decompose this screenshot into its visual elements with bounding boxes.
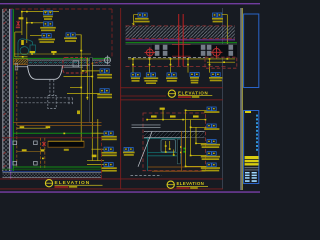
detail label text bbox=[64, 37, 77, 39]
callout C5 text bbox=[101, 167, 116, 169]
title3 circle line bbox=[167, 184, 175, 186]
low dim text bbox=[92, 155, 97, 158]
label R1 boxes bbox=[207, 107, 216, 111]
plan green dots bbox=[183, 148, 185, 150]
leader horizontal y87.5 bbox=[70, 87, 81, 89]
detail label boxes bbox=[66, 33, 75, 37]
label L2 boxes bbox=[44, 22, 53, 26]
counter dim line bbox=[14, 53, 91, 55]
label L2 inner marks bbox=[45, 23, 47, 25]
shelf red star bbox=[42, 141, 45, 146]
shelf dim text 2 bbox=[41, 149, 45, 151]
plan right dim vertical 2 bbox=[190, 120, 192, 156]
skirt dim dot bbox=[223, 61, 225, 63]
dim horizontal second bbox=[27, 22, 43, 24]
section circle stem bbox=[107, 55, 109, 64]
detail balloon white line bbox=[64, 66, 83, 69]
callout C4 inner marks bbox=[105, 148, 107, 150]
callout C4 text bbox=[101, 152, 116, 154]
label G3 text bbox=[166, 77, 177, 79]
faucet dim dot bbox=[22, 56, 24, 58]
detail label inner marks bbox=[67, 34, 69, 35]
label L3 text bbox=[39, 39, 56, 41]
dim line dots bbox=[132, 58, 228, 60]
floor green line 2 bbox=[3, 168, 102, 171]
plan counter back teal edge bbox=[144, 138, 182, 140]
counter dim dot 1 bbox=[31, 53, 33, 55]
label G1 boxes bbox=[131, 73, 140, 77]
title1 underline bbox=[55, 184, 103, 187]
stem dots bbox=[91, 76, 93, 78]
title2 underline bbox=[178, 94, 212, 97]
sheet edge grey line bbox=[240, 8, 241, 190]
slab hatch bottom red dashed edge bbox=[126, 37, 236, 39]
mirror bracket top-right bbox=[34, 141, 38, 145]
counter dim text 2 bbox=[51, 51, 56, 53]
plan right dim vertical 3 bbox=[195, 127, 197, 143]
title block small text rows bbox=[245, 172, 257, 182]
callout C1 inner marks bbox=[101, 70, 103, 72]
slab hatch band bbox=[126, 26, 236, 39]
drain pipe dashed bbox=[17, 98, 73, 105]
plan side panel dark band bbox=[177, 139, 180, 164]
label R5 inner marks bbox=[208, 164, 210, 165]
faucet dim vertical bbox=[14, 32, 16, 57]
plan left label text bbox=[123, 152, 135, 154]
callout C1 leader bbox=[83, 70, 100, 72]
mirror bracket top-left bbox=[13, 141, 17, 145]
red mid segments bbox=[172, 43, 191, 46]
label L3 leader bbox=[30, 35, 42, 37]
title block table lines bbox=[245, 166, 259, 169]
label G2 text bbox=[144, 77, 159, 79]
batten blocks row1 bbox=[155, 45, 233, 50]
wall strip red ticks bbox=[3, 10, 5, 167]
title block blue box lower bbox=[244, 111, 259, 184]
plan orange mid line bbox=[148, 166, 206, 168]
callout C4 leader bbox=[92, 148, 105, 150]
plan counter teal front edge 2 bbox=[148, 155, 182, 157]
skirting dim line bbox=[17, 127, 48, 129]
title1 scale text bbox=[55, 186, 69, 188]
plan dim text 3 bbox=[193, 115, 199, 117]
plan dim text 2 bbox=[170, 115, 176, 117]
legend blue box upper bbox=[244, 14, 259, 88]
mirror bracket bottom-left bbox=[13, 161, 17, 165]
batten blocks row2 bbox=[155, 51, 233, 56]
orange ceiling line bbox=[205, 45, 237, 48]
label G4 boxes bbox=[190, 73, 199, 77]
floor hatch bottom edge bbox=[3, 176, 102, 179]
orange vertical pair at shelf left bbox=[40, 138, 42, 168]
red divider horizontal title1 bottom bbox=[120, 98, 223, 101]
dim horizontal top bbox=[22, 11, 59, 13]
dim vertical x26.8 bbox=[26, 18, 28, 44]
title2 circle line bbox=[168, 93, 176, 95]
counter slab bottom edge bbox=[28, 64, 111, 67]
plan wall band top edge bbox=[144, 130, 205, 133]
red section symbol 1 bbox=[145, 47, 156, 58]
plan leader 4 bbox=[191, 155, 207, 157]
counter slab top edge bbox=[28, 59, 111, 62]
section circle symbol bbox=[105, 57, 111, 63]
plan leader 3 bbox=[196, 142, 207, 144]
dim line top-right view bbox=[128, 58, 235, 60]
shelf box top edge bbox=[48, 140, 84, 143]
plan top dim text A bbox=[160, 108, 165, 110]
label G4 inner marks bbox=[191, 74, 193, 75]
shelf dim text 1 bbox=[22, 149, 27, 151]
callout C2 leader bbox=[67, 93, 100, 95]
plan stem cluster bbox=[166, 141, 174, 156]
leader vertical x92 bbox=[91, 62, 93, 161]
pedestal neck dashed bbox=[48, 80, 56, 109]
label R2 boxes bbox=[207, 124, 216, 128]
detail label leader bbox=[76, 35, 81, 51]
dim ticks top bbox=[21, 11, 33, 24]
floor hatch band bbox=[3, 173, 102, 178]
white dashed line under battens bbox=[128, 57, 205, 59]
label R1 text bbox=[204, 111, 219, 113]
dim stem dots bbox=[132, 64, 210, 66]
shelf under text bbox=[64, 149, 69, 151]
label G1 text bbox=[131, 77, 140, 79]
detail balloon red dashed box bbox=[63, 57, 87, 73]
callout C5 leader bbox=[87, 164, 104, 166]
faucet teal spout bbox=[18, 39, 33, 57]
label T2 leader bbox=[222, 15, 228, 46]
title2 circle bbox=[168, 90, 175, 97]
magenta sheet border top bbox=[0, 3, 260, 4]
label T2 leader dot bbox=[226, 45, 228, 47]
title3 circle bbox=[167, 181, 174, 188]
title block yellow logo block bbox=[245, 156, 259, 166]
callout C2 inner marks bbox=[101, 90, 103, 92]
left view red dashed right border bbox=[111, 9, 113, 57]
cabinet front orange dashed line bbox=[16, 58, 18, 168]
batten band top line bbox=[126, 43, 238, 46]
red note text bbox=[16, 27, 20, 29]
plan top dim stem bbox=[162, 108, 164, 120]
dark red line low bbox=[3, 136, 102, 139]
floor green line 1 bbox=[13, 166, 101, 169]
wall finish magenta line bbox=[9, 9, 12, 179]
basin rim left bbox=[16, 65, 28, 68]
label R4 text bbox=[201, 156, 220, 158]
magenta ceiling line bbox=[126, 38, 236, 41]
plan dim line bbox=[147, 119, 206, 121]
sheet inner vertical grey line bbox=[221, 8, 224, 189]
label R5 boxes bbox=[207, 163, 216, 167]
title block cyan revision dots bbox=[256, 115, 258, 151]
magenta sheet border bottom bbox=[0, 191, 260, 193]
plan grey line 1 bbox=[132, 124, 161, 127]
plan grey line 2 bbox=[132, 126, 161, 129]
shelf box bbox=[48, 141, 84, 147]
dim text 25 bbox=[19, 17, 24, 19]
red short line mid title row bbox=[120, 95, 166, 98]
floor hatch top edge bbox=[3, 171, 102, 174]
callout C2 boxes bbox=[100, 89, 109, 93]
label G3 inner marks bbox=[168, 74, 170, 75]
wall finish blue line bbox=[11, 9, 14, 171]
title3 underline bbox=[177, 185, 209, 188]
plan leader dots bbox=[185, 110, 197, 168]
label G3 boxes bbox=[167, 73, 176, 77]
title1 circle line bbox=[45, 182, 53, 184]
plan bottom grey dashes bbox=[131, 175, 162, 177]
label R1 inner marks bbox=[208, 108, 210, 109]
plan left label boxes bbox=[124, 147, 133, 151]
mirror bracket bottom-right bbox=[34, 161, 38, 165]
shelf dim line bbox=[17, 151, 44, 153]
leader vertical x81 bbox=[80, 35, 82, 141]
callout C3 boxes bbox=[104, 131, 113, 135]
skirting orange line 2 bbox=[17, 124, 102, 127]
callout C3 inner marks bbox=[105, 132, 107, 134]
svg-text:ELEVATION: ELEVATION bbox=[178, 90, 208, 95]
floor blue line bbox=[3, 170, 102, 173]
red note symbol bbox=[17, 21, 20, 27]
left view red dashed top border bbox=[3, 8, 112, 10]
plan white diagonal bbox=[138, 132, 152, 167]
callout C1 leader dot bbox=[82, 70, 84, 72]
label R4 inner marks bbox=[208, 153, 210, 154]
callout C5 boxes bbox=[104, 163, 113, 167]
label T1 boxes bbox=[138, 13, 147, 17]
leader horizontal y76.5 bbox=[64, 76, 93, 78]
label T2 inner marks bbox=[214, 14, 216, 16]
red dashed line across bbox=[126, 65, 229, 67]
label T2 boxes bbox=[213, 13, 222, 17]
label L1 inner marks bbox=[45, 12, 47, 14]
wall strip left edge bbox=[2, 9, 5, 172]
leader vertical x87 bbox=[86, 58, 88, 101]
skirt red dashed box bbox=[205, 57, 237, 68]
basin bowl bbox=[28, 66, 63, 80]
green line mid low bbox=[13, 132, 101, 135]
plan orange right edge bbox=[181, 131, 183, 171]
faucet teal base bbox=[30, 45, 36, 54]
counter green top line bbox=[13, 57, 111, 60]
label R3 boxes bbox=[207, 140, 216, 144]
callout C1 text bbox=[97, 74, 112, 76]
counter dim dot 2 bbox=[53, 53, 55, 55]
label T1 inner marks bbox=[139, 14, 141, 16]
wall strip right edge bbox=[8, 9, 11, 171]
red sheet line bottom bbox=[0, 188, 223, 191]
label G2 boxes bbox=[146, 73, 155, 77]
skirting orange line 1 bbox=[13, 121, 101, 124]
svg-text:ELEVATION: ELEVATION bbox=[177, 181, 205, 186]
title block yellow header bar bbox=[245, 111, 251, 113]
plan wall band bbox=[144, 131, 205, 137]
counter slab bbox=[28, 60, 111, 66]
callout C1 boxes bbox=[100, 69, 109, 73]
title1 circle bbox=[45, 180, 52, 187]
plan wall band bottom edge bbox=[144, 136, 187, 139]
label T1 text bbox=[135, 18, 149, 20]
label G2 inner marks bbox=[147, 74, 149, 75]
plan orange bottom edge bbox=[152, 170, 206, 172]
callout C4 boxes bbox=[104, 147, 113, 151]
callout C3 leader bbox=[92, 132, 105, 134]
wall hatch strip bbox=[3, 9, 9, 172]
plan leader 2 bbox=[191, 126, 207, 128]
label R4 boxes bbox=[207, 152, 216, 156]
faucet dim text 360 bbox=[21, 40, 24, 45]
plan dim ticks bbox=[146, 119, 206, 121]
backsplash hatched block bbox=[14, 59, 28, 65]
batten band bbox=[152, 44, 237, 57]
red pair vertical 2 bbox=[182, 14, 185, 66]
floor red dashed right edge bbox=[101, 137, 103, 178]
plan right dim vertical 1 bbox=[185, 110, 187, 166]
red pair vertical 1 bbox=[177, 14, 180, 66]
skirting dim text 2 bbox=[46, 126, 51, 128]
label R5 text bbox=[201, 167, 220, 169]
plan red dashed border bbox=[143, 113, 206, 171]
label G5 text bbox=[209, 77, 222, 79]
low dim vertical 2 bbox=[97, 119, 99, 161]
detail balloon inner grey box bbox=[73, 61, 79, 67]
label R3 text bbox=[201, 144, 220, 146]
red sheet line above titles bottom bbox=[0, 178, 223, 181]
plan counter teal left edge bbox=[147, 138, 149, 171]
dim stems bbox=[133, 59, 210, 73]
plan leader 5 bbox=[186, 165, 207, 167]
label T1 leader bbox=[134, 15, 138, 24]
label T1 arrowhead bbox=[132, 23, 135, 25]
detail balloon red leader bbox=[87, 61, 104, 66]
wall finish green line bbox=[12, 9, 15, 171]
low dim horizontal bbox=[87, 160, 104, 162]
label L1 boxes bbox=[44, 11, 53, 15]
label T2 text bbox=[212, 18, 223, 20]
faucet dim top tie bbox=[15, 31, 22, 33]
red divider horizontal row1 bottom bbox=[120, 86, 223, 89]
sheet edge olive line bbox=[242, 8, 243, 190]
counter dim text 1 bbox=[30, 51, 35, 53]
label R3 inner marks bbox=[208, 141, 210, 142]
label R2 inner marks bbox=[208, 125, 210, 126]
label L3 boxes bbox=[42, 34, 51, 38]
green ceiling line bbox=[126, 41, 238, 44]
plan dim text 1 bbox=[151, 115, 157, 117]
label G5 inner marks bbox=[212, 74, 214, 75]
red divider vertical bbox=[119, 8, 122, 189]
callout C5 inner marks bbox=[105, 164, 107, 166]
label L2 text bbox=[40, 27, 56, 29]
plan basin outline bbox=[161, 140, 176, 152]
slab hatch top red dashed edge bbox=[126, 25, 236, 27]
low dim dot bbox=[42, 158, 44, 160]
label R2 text bbox=[204, 128, 219, 130]
basin rim box bbox=[15, 63, 18, 70]
title3 scale text bbox=[177, 187, 190, 189]
label G1 inner marks bbox=[132, 74, 134, 75]
label G4 text bbox=[190, 77, 199, 79]
label G5 boxes bbox=[211, 73, 220, 77]
plan left label inner marks bbox=[125, 148, 127, 149]
faucet dim horizontal bbox=[15, 56, 28, 58]
label L3 inner marks bbox=[43, 35, 45, 37]
title2 scale text bbox=[178, 96, 191, 98]
skirting dim text 1 bbox=[20, 126, 25, 128]
plan leader 1 bbox=[186, 109, 207, 111]
detail leader dot bbox=[80, 50, 82, 52]
label L1 text bbox=[43, 16, 53, 18]
faucet teal handle bbox=[20, 47, 29, 55]
counter slab teal centerline bbox=[29, 62, 110, 64]
plan counter teal front edge bbox=[148, 152, 182, 154]
leader text B bbox=[77, 111, 80, 115]
plan dot cluster bbox=[165, 145, 182, 156]
callout C2 text bbox=[97, 94, 112, 96]
green line tick bbox=[63, 133, 65, 135]
counter end panel bbox=[90, 58, 93, 123]
red section symbol 2 bbox=[211, 46, 223, 58]
dim vertical x22 bbox=[21, 12, 23, 35]
skirt dim line bbox=[207, 61, 235, 63]
callout C3 text bbox=[101, 136, 116, 138]
